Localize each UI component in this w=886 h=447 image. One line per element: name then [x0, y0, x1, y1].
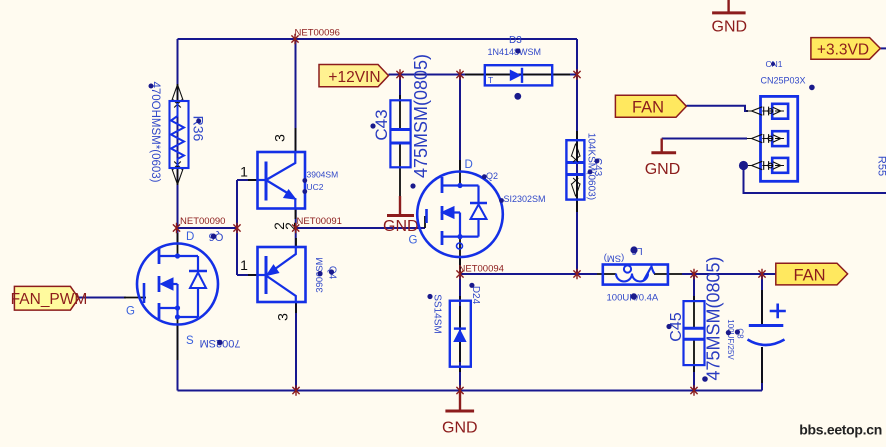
- svg-text:UC2: UC2: [307, 182, 324, 192]
- svg-text:G: G: [126, 306, 135, 318]
- wire FAN_PWM to Q6 gate: [79, 297, 126, 299]
- svg-text:S: S: [186, 335, 194, 347]
- svg-text:D3: D3: [509, 35, 522, 46]
- dot D3 value: [515, 48, 520, 53]
- svg-text:D: D: [465, 159, 473, 171]
- dot D24 value: [427, 294, 432, 299]
- wire left column R36/Q6 drain: [177, 39, 179, 244]
- dot C43b designator: [595, 159, 600, 164]
- svg-text:475MSM(0805): 475MSM(0805): [703, 256, 723, 380]
- wire C8 bottom pin: [761, 347, 763, 391]
- CN1 pin3 decoration: [748, 161, 784, 170]
- svg-text:GND: GND: [712, 18, 748, 35]
- svg-text:SS14SM: SS14SM: [431, 294, 442, 333]
- dot Q6 designator: [211, 234, 217, 240]
- svg-text:1: 1: [240, 257, 248, 273]
- dot UC2 b: [302, 189, 307, 194]
- svg-text:3: 3: [275, 313, 291, 321]
- ground GND top: [712, 0, 748, 35]
- dot R36 value: [149, 84, 154, 89]
- port +3.3VD: [811, 38, 880, 60]
- capacitor C43b 104KSM(0603): [566, 131, 584, 212]
- dot Q2 value: [499, 198, 504, 203]
- dot Q6 value: [217, 340, 223, 346]
- port FAN bottom: [776, 263, 848, 285]
- svg-text:100UF/25V: 100UF/25V: [726, 319, 735, 360]
- wire +3.3VD stub: [880, 47, 886, 49]
- capacitor C8 100UF/25V polarized: [748, 290, 786, 383]
- svg-text:bbs.eetop.cn: bbs.eetop.cn: [799, 422, 882, 438]
- svg-text:GND: GND: [645, 161, 681, 178]
- dot D24 designator: [469, 283, 474, 288]
- svg-text:3: 3: [272, 134, 288, 142]
- wire NET00091: [296, 227, 425, 229]
- ground GND middle (CN1 pin2): [645, 139, 681, 178]
- mosfet Q2 SI2302SM: [417, 160, 503, 272]
- wire UC2 pin1 stub: [237, 179, 258, 181]
- transistor UC2 3904SM: [248, 128, 305, 219]
- wire FAN to CN1 pin1: [687, 106, 749, 111]
- dot L6: [630, 246, 637, 253]
- svg-text:D: D: [186, 231, 194, 243]
- svg-text:SI2302SM: SI2302SM: [504, 194, 546, 204]
- svg-text:1: 1: [240, 164, 248, 180]
- port FAN_PWM: [11, 286, 88, 310]
- dot C45 designator: [666, 324, 671, 329]
- dot Q2 designator: [482, 174, 487, 179]
- svg-text:NET00094: NET00094: [459, 264, 504, 275]
- wire C45 top pin: [693, 274, 695, 301]
- CN1 pin2 decoration: [747, 134, 784, 143]
- svg-text:NET00090: NET00090: [180, 216, 225, 227]
- svg-text:CN25P03X: CN25P03X: [761, 76, 806, 86]
- dot R36 designator: [196, 119, 201, 124]
- junction dot CN1 pin3: [739, 161, 748, 170]
- connector CN1 CN25P03X: [761, 96, 798, 181]
- wire Q6 source down: [177, 324, 179, 391]
- wire CN1 pin3 to R55: [744, 166, 886, 194]
- wire Q2 drain column: [459, 75, 461, 173]
- wire UC2 pin3 riser: [295, 39, 297, 152]
- dot C8: [735, 329, 740, 334]
- transistor Q4 3906SM: [248, 238, 306, 313]
- wire NET00094 FAN row: [460, 273, 776, 275]
- svg-text:3904SM: 3904SM: [307, 170, 339, 180]
- resistor R36: [170, 84, 189, 185]
- capacitor C45 475MSM(0805): [684, 296, 705, 372]
- diode D24 SS14SM: [450, 296, 471, 372]
- wire UC2 pin2 to Q4 pin2: [295, 209, 297, 248]
- svg-text:GND: GND: [383, 218, 419, 235]
- svg-text:T: T: [488, 75, 493, 85]
- dot CN1: [771, 62, 775, 66]
- svg-text:470OHMSM*(0603): 470OHMSM*(0603): [149, 82, 161, 183]
- dot C43 designator: [370, 123, 375, 128]
- svg-text:NET00091: NET00091: [297, 216, 342, 227]
- junction crosses: [173, 34, 766, 396]
- CN1 pin1 decoration: [746, 107, 784, 116]
- svg-text:Q2: Q2: [486, 171, 498, 181]
- wire C43 top pin: [399, 75, 401, 103]
- svg-text:R55: R55: [876, 156, 886, 176]
- dot Q4 designator: [329, 269, 334, 274]
- dot C45 value: [702, 376, 708, 382]
- wire right column to C43b: [576, 39, 578, 274]
- wire bottom rail: [178, 390, 763, 392]
- wire Q4 pin3 down: [295, 302, 297, 391]
- svg-text:(SM): (SM): [604, 252, 625, 263]
- dot C43b value: [588, 170, 593, 175]
- wire Q2 source to D24 to bottom: [459, 256, 461, 391]
- wire C45 bottom pin: [693, 365, 695, 391]
- diode D3 1N4148WSM: [465, 65, 570, 85]
- wire CN1 pin2 to GND: [662, 138, 747, 140]
- dot 100UH: [631, 293, 637, 299]
- ground GND under C43: [383, 196, 419, 235]
- svg-text:D24: D24: [470, 286, 481, 305]
- wire +12VIN row: [389, 74, 578, 76]
- dot D3 below: [514, 93, 521, 100]
- dot UC2 a: [302, 178, 307, 183]
- port FAN top: [615, 95, 686, 117]
- inductor L6 100UH: [597, 265, 682, 285]
- ground GND bottom (D24): [442, 391, 478, 437]
- mosfet Q6 7002SM: [124, 233, 218, 360]
- svg-text:G: G: [409, 235, 418, 247]
- dot CN25P03X: [809, 85, 815, 91]
- svg-text:1N4148WSM: 1N4148WSM: [488, 47, 542, 57]
- svg-text:475MSM(0805): 475MSM(0805): [411, 54, 431, 178]
- dot Q4 value: [317, 271, 322, 276]
- wire base column UC2/Q4 pin1: [236, 180, 238, 275]
- port +12VIN: [319, 65, 389, 87]
- svg-text:FAN: FAN: [632, 98, 664, 116]
- wire top rail NET00096: [178, 38, 578, 40]
- svg-text:FAN: FAN: [793, 266, 825, 284]
- svg-text:GND: GND: [442, 420, 478, 437]
- wire NET00090: [177, 227, 238, 229]
- wire C8 top pin: [761, 274, 763, 325]
- svg-text:+12VIN: +12VIN: [328, 69, 380, 86]
- svg-text:FAN_PWM: FAN_PWM: [11, 291, 88, 308]
- wire Q4 pin1 stub: [237, 274, 258, 276]
- svg-text:+3.3VD: +3.3VD: [817, 41, 869, 58]
- dot C43 value: [410, 183, 415, 188]
- svg-text:NET00096: NET00096: [295, 27, 340, 38]
- capacitor C43 475MSM(0805): [390, 95, 410, 196]
